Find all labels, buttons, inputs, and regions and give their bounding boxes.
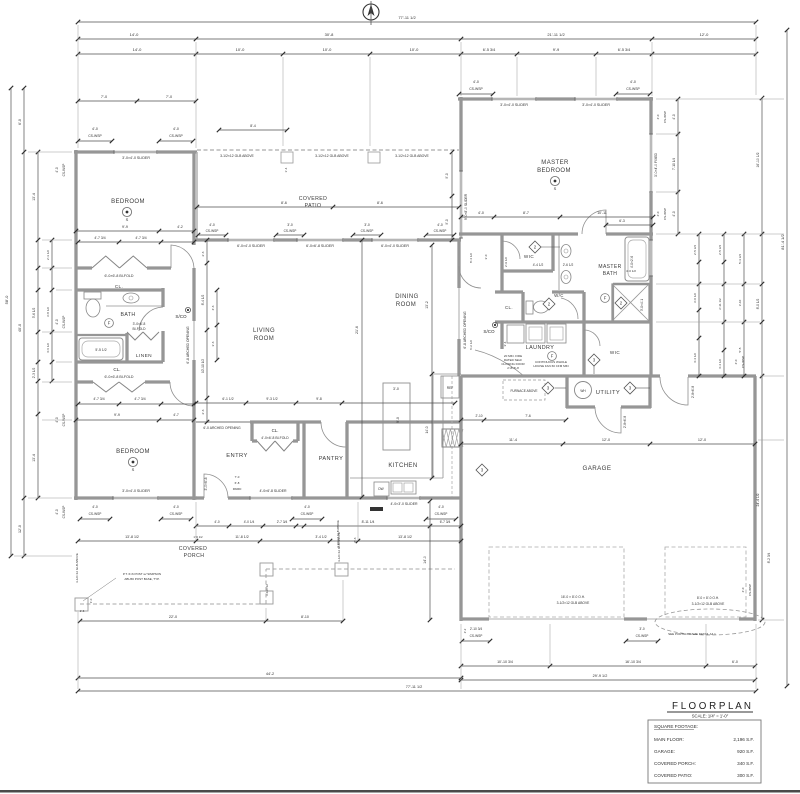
svg-text:12'-0: 12'-0 <box>700 32 710 37</box>
svg-text:8'-7: 8'-7 <box>523 211 529 215</box>
svg-text:CS-WSP: CS-WSP <box>62 316 66 329</box>
svg-text:6'-3: 6'-3 <box>619 219 625 223</box>
svg-text:4'-0×2'-6: 4'-0×2'-6 <box>630 256 634 269</box>
svg-text:CS-WSP: CS-WSP <box>636 634 649 638</box>
svg-text:8'-0 × 8'-0 O.H.: 8'-0 × 8'-0 O.H. <box>697 596 719 600</box>
svg-text:1'-6 1/2: 1'-6 1/2 <box>193 535 203 539</box>
svg-text:CS-WSP: CS-WSP <box>301 512 314 516</box>
svg-text:6'-8: 6'-8 <box>235 481 240 485</box>
svg-text:4'-4 1/2: 4'-4 1/2 <box>718 359 722 369</box>
svg-text:CS-WSP: CS-WSP <box>434 229 447 233</box>
svg-text:9'-3 1/2: 9'-3 1/2 <box>266 397 277 401</box>
svg-text:P.T. 6×6 POST w/ SIMPSON: P.T. 6×6 POST w/ SIMPSON <box>123 572 161 576</box>
svg-text:81'-4 1/2: 81'-4 1/2 <box>780 234 785 250</box>
svg-text:4'-7 3/4: 4'-7 3/4 <box>134 397 145 401</box>
svg-text:SEE PORTAL FRAME DETAIL A4.1: SEE PORTAL FRAME DETAIL A4.1 <box>668 632 716 636</box>
svg-text:CS-WSP: CS-WSP <box>435 512 448 516</box>
svg-text:PANTRY: PANTRY <box>319 456 344 462</box>
svg-text:COVERED PORCH:: COVERED PORCH: <box>654 761 696 766</box>
svg-text:3-1/2×12 GLB ABOVE: 3-1/2×12 GLB ABOVE <box>336 520 340 548</box>
svg-text:6'-0×6'-8 SLIDER: 6'-0×6'-8 SLIDER <box>306 244 334 248</box>
svg-text:22'-0: 22'-0 <box>169 615 177 619</box>
svg-text:12'-0: 12'-0 <box>18 525 22 533</box>
svg-text:BEDROOM: BEDROOM <box>116 449 150 455</box>
svg-text:COVERED PATIO:: COVERED PATIO: <box>654 773 692 778</box>
svg-text:4'-0 1/2: 4'-0 1/2 <box>626 269 636 273</box>
svg-text:6'-0: 6'-0 <box>732 660 738 664</box>
svg-text:CS-WSP: CS-WSP <box>169 134 183 138</box>
svg-text:S/CO: S/CO <box>483 329 495 334</box>
svg-text:1'-0: 1'-0 <box>89 598 93 603</box>
svg-text:2'-8×6'-8: 2'-8×6'-8 <box>507 366 519 370</box>
svg-text:7'-0: 7'-0 <box>101 95 107 99</box>
svg-text:6'-0×6'-8 BI-FOLD: 6'-0×6'-8 BI-FOLD <box>104 375 133 379</box>
svg-text:CS-WSP: CS-WSP <box>89 512 102 516</box>
svg-text:14'-0: 14'-0 <box>425 426 429 433</box>
svg-text:9'-9: 9'-9 <box>122 225 128 229</box>
svg-text:F: F <box>108 321 111 326</box>
svg-text:KITCHEN: KITCHEN <box>388 463 417 469</box>
svg-text:1'-4: 1'-4 <box>284 167 288 172</box>
svg-text:S/CO: S/CO <box>175 314 187 319</box>
svg-text:4'-0: 4'-0 <box>304 505 310 509</box>
svg-text:4'-7: 4'-7 <box>173 413 179 417</box>
svg-text:9'-0: 9'-0 <box>396 417 400 423</box>
svg-text:14'-0: 14'-0 <box>423 556 427 564</box>
svg-text:4'-2: 4'-2 <box>177 225 183 229</box>
svg-text:FURNACE ABOVE: FURNACE ABOVE <box>510 389 537 393</box>
svg-text:2'-7 3/4: 2'-7 3/4 <box>277 520 288 524</box>
svg-text:6'-0×4'-0 SLIDER: 6'-0×4'-0 SLIDER <box>237 244 265 248</box>
svg-text:3-1/2×12: 3-1/2×12 <box>265 584 269 596</box>
svg-text:300 S.F.: 300 S.F. <box>737 773 754 778</box>
svg-text:6'-8 ARCHED OPENING: 6'-8 ARCHED OPENING <box>463 311 467 349</box>
svg-text:4'-0: 4'-0 <box>173 127 179 131</box>
svg-text:WIC: WIC <box>524 254 534 259</box>
svg-text:2,196 S.F.: 2,196 S.F. <box>733 737 754 742</box>
svg-text:S: S <box>132 467 135 472</box>
svg-text:4'-0: 4'-0 <box>672 211 676 216</box>
svg-text:2'-5 3/4: 2'-5 3/4 <box>693 245 697 255</box>
svg-text:ABU66 POST BASE, TYP.: ABU66 POST BASE, TYP. <box>124 577 159 581</box>
svg-text:4'-4 1/2: 4'-4 1/2 <box>693 353 697 363</box>
svg-text:4'-0: 4'-0 <box>209 223 215 227</box>
svg-text:6'-0: 6'-0 <box>18 119 22 125</box>
svg-text:4'-0×3'-0 SLIDER: 4'-0×3'-0 SLIDER <box>390 502 418 506</box>
svg-text:30'-8: 30'-8 <box>325 32 335 37</box>
svg-text:16'-10 3/4: 16'-10 3/4 <box>625 660 641 664</box>
svg-text:3'-0×6'-8: 3'-0×6'-8 <box>133 322 146 326</box>
svg-text:6'-5 3/4: 6'-5 3/4 <box>618 48 631 52</box>
svg-text:GARAGE: GARAGE <box>583 465 612 472</box>
svg-text:2'-5 3/4: 2'-5 3/4 <box>718 245 722 255</box>
svg-text:BI-FOLD: BI-FOLD <box>132 327 146 331</box>
svg-text:21'-11 1/2: 21'-11 1/2 <box>547 32 565 37</box>
svg-text:GARAGE:: GARAGE: <box>654 749 675 754</box>
svg-text:6'-0×4'-0 SLIDER: 6'-0×4'-0 SLIDER <box>381 244 409 248</box>
svg-text:4'-4 1/2: 4'-4 1/2 <box>533 263 544 267</box>
svg-text:5'-5: 5'-5 <box>738 347 742 352</box>
svg-text:3'-6 1/2: 3'-6 1/2 <box>32 308 36 319</box>
svg-text:9'-9: 9'-9 <box>553 47 560 52</box>
svg-text:77'-11 1/2: 77'-11 1/2 <box>406 685 423 689</box>
svg-text:2'-11 1/2: 2'-11 1/2 <box>718 298 722 310</box>
svg-text:ENTRY: ENTRY <box>226 453 248 459</box>
svg-text:4'-7 3/4: 4'-7 3/4 <box>93 397 104 401</box>
svg-text:2'-3 1/2: 2'-3 1/2 <box>32 368 36 379</box>
svg-text:4'-0: 4'-0 <box>438 505 444 509</box>
svg-text:4'-0: 4'-0 <box>55 319 59 324</box>
svg-text:PAIRD: PAIRD <box>233 487 242 491</box>
svg-text:3-1/2×12 GLB ABOVE: 3-1/2×12 GLB ABOVE <box>75 553 79 583</box>
svg-text:9'-8: 9'-8 <box>316 397 322 401</box>
svg-text:CS-WSP: CS-WSP <box>663 111 667 123</box>
svg-text:4'-0: 4'-0 <box>214 520 219 524</box>
svg-text:2'-8×6'-8: 2'-8×6'-8 <box>691 386 695 399</box>
svg-text:3'-0: 3'-0 <box>287 223 293 227</box>
svg-text:4'-0: 4'-0 <box>92 127 98 131</box>
svg-text:7'-6: 7'-6 <box>525 414 531 418</box>
svg-text:13'-4: 13'-4 <box>32 193 36 201</box>
svg-text:44'-2: 44'-2 <box>266 672 274 676</box>
svg-text:3'-4: 3'-4 <box>503 341 507 346</box>
svg-text:4'-0: 4'-0 <box>437 223 443 227</box>
svg-text:4'-6 1/2: 4'-6 1/2 <box>46 343 50 353</box>
svg-text:3'-0: 3'-0 <box>639 627 644 631</box>
svg-text:2'-10 3/4: 2'-10 3/4 <box>470 627 483 631</box>
svg-text:10'-10 1/2: 10'-10 1/2 <box>201 359 205 373</box>
svg-text:CL.: CL. <box>505 305 513 310</box>
svg-text:4'-0: 4'-0 <box>734 359 738 364</box>
svg-text:4'-0×6'-8 SLIDER: 4'-0×6'-8 SLIDER <box>259 489 287 493</box>
svg-text:3'-6: 3'-6 <box>211 341 215 346</box>
svg-text:BATH: BATH <box>120 312 135 318</box>
svg-text:3-1/2×12 GLB ABOVE: 3-1/2×12 GLB ABOVE <box>557 601 591 605</box>
svg-text:13'-8 1/2: 13'-8 1/2 <box>398 535 412 539</box>
svg-text:MASTER: MASTER <box>541 160 569 166</box>
svg-text:6'-2 1/2: 6'-2 1/2 <box>469 340 473 350</box>
svg-text:W/C: W/C <box>554 293 564 298</box>
svg-text:PORCH: PORCH <box>184 553 205 559</box>
svg-text:CS-WSP: CS-WSP <box>469 87 483 91</box>
svg-text:8'-10: 8'-10 <box>301 615 309 619</box>
svg-text:CS-WSP: CS-WSP <box>470 634 483 638</box>
svg-text:6'-1 1/2: 6'-1 1/2 <box>222 397 233 401</box>
svg-text:7'-10 1/4: 7'-10 1/4 <box>672 158 676 171</box>
svg-text:3'-0×6'-8: 3'-0×6'-8 <box>204 477 208 490</box>
svg-text:1'-6: 1'-6 <box>80 609 85 613</box>
svg-text:F L O O R P L A N: F L O O R P L A N <box>672 700 751 712</box>
svg-text:3-1/2×12 GLB ABOVE: 3-1/2×12 GLB ABOVE <box>220 154 254 158</box>
svg-text:CL.: CL. <box>113 367 120 372</box>
svg-text:CS-WSP: CS-WSP <box>206 229 219 233</box>
svg-text:3'-0×4'-0 SLIDER: 3'-0×4'-0 SLIDER <box>500 103 528 107</box>
svg-text:3'-8 1/2: 3'-8 1/2 <box>46 307 50 317</box>
svg-text:4'-0×6'-8 BI-FOLD: 4'-0×6'-8 BI-FOLD <box>261 436 289 440</box>
svg-text:6'-0 ARCHED OPENING: 6'-0 ARCHED OPENING <box>203 426 241 430</box>
svg-text:10'-11: 10'-11 <box>597 211 607 215</box>
svg-text:8'-4: 8'-4 <box>250 124 256 128</box>
svg-text:LIVING: LIVING <box>253 328 275 334</box>
svg-text:5'-5 1/2: 5'-5 1/2 <box>95 348 106 352</box>
svg-text:13'-8 1/2: 13'-8 1/2 <box>125 535 139 539</box>
svg-text:4'-0: 4'-0 <box>173 505 179 509</box>
svg-text:3'-0 1/2: 3'-0 1/2 <box>693 293 697 303</box>
svg-text:2'-2: 2'-2 <box>463 628 467 633</box>
svg-text:8'-6: 8'-6 <box>353 537 357 542</box>
svg-text:16'-10 1/2: 16'-10 1/2 <box>756 152 760 167</box>
svg-text:4'-0: 4'-0 <box>656 211 660 216</box>
svg-text:WH: WH <box>580 389 586 393</box>
svg-text:8'-4 1/2: 8'-4 1/2 <box>201 295 205 306</box>
svg-text:3'-0×4'-0 SLIDER: 3'-0×4'-0 SLIDER <box>122 156 150 160</box>
svg-text:8'-11 1/4: 8'-11 1/4 <box>362 520 375 524</box>
svg-text:16'-0 × 8'-0 O.H.: 16'-0 × 8'-0 O.H. <box>561 595 585 599</box>
svg-text:S: S <box>126 217 129 222</box>
svg-text:7'-0: 7'-0 <box>166 95 172 99</box>
svg-text:3'-0×4'-0 SLIDER: 3'-0×4'-0 SLIDER <box>582 103 610 107</box>
svg-text:10'-0: 10'-0 <box>323 47 333 52</box>
svg-text:6'-8 ARCHED OPENING: 6'-8 ARCHED OPENING <box>186 326 190 364</box>
svg-text:2'-6: 2'-6 <box>201 251 205 256</box>
svg-text:ROOM: ROOM <box>254 336 274 342</box>
svg-text:40'-0: 40'-0 <box>18 324 22 332</box>
svg-text:2'-10: 2'-10 <box>476 414 483 418</box>
svg-text:3-1/2×12 GLB ABOVE: 3-1/2×12 GLB ABOVE <box>692 602 726 606</box>
svg-text:WIC: WIC <box>610 350 620 355</box>
svg-text:BEDROOM: BEDROOM <box>537 168 571 174</box>
svg-text:11'-4: 11'-4 <box>509 438 517 442</box>
svg-text:3'-0×4'-0 FIXED: 3'-0×4'-0 FIXED <box>654 152 658 177</box>
svg-text:2'-8×6'-8: 2'-8×6'-8 <box>623 416 627 429</box>
svg-text:21'-6: 21'-6 <box>355 326 359 334</box>
svg-text:UTILITY: UTILITY <box>596 390 620 396</box>
svg-text:CS-WSP: CS-WSP <box>361 229 374 233</box>
svg-text:24'-4 1/2: 24'-4 1/2 <box>756 493 760 506</box>
svg-text:3-1/2×12 GLB ABOVE: 3-1/2×12 GLB ABOVE <box>315 154 349 158</box>
svg-text:PATIO: PATIO <box>305 203 322 209</box>
svg-text:9'-0: 9'-0 <box>445 173 449 178</box>
svg-text:77'-11 1/2: 77'-11 1/2 <box>398 15 416 20</box>
svg-text:11'-8 1/2: 11'-8 1/2 <box>235 535 249 539</box>
svg-text:4'-0: 4'-0 <box>55 509 59 514</box>
svg-text:CS-WSP: CS-WSP <box>626 87 640 91</box>
svg-text:2'-6 1/2: 2'-6 1/2 <box>563 263 574 267</box>
svg-text:3-1/2×12 GLB ABOVE: 3-1/2×12 GLB ABOVE <box>395 154 429 158</box>
svg-text:2'-3 1/2: 2'-3 1/2 <box>46 250 50 260</box>
svg-text:9'-9: 9'-9 <box>114 413 120 417</box>
svg-text:13'-4: 13'-4 <box>32 454 36 462</box>
svg-text:8'-4 1/2: 8'-4 1/2 <box>469 253 473 263</box>
svg-text:CL.: CL. <box>115 284 123 289</box>
svg-text:6'-7 3/4: 6'-7 3/4 <box>440 520 451 524</box>
svg-text:DINING: DINING <box>395 294 418 300</box>
svg-text:3'-4 1/2: 3'-4 1/2 <box>315 535 326 539</box>
svg-text:3'-10: 3'-10 <box>738 299 742 306</box>
svg-text:10'-0: 10'-0 <box>236 47 246 52</box>
svg-text:CS-WSP: CS-WSP <box>741 356 745 368</box>
svg-text:4'-0: 4'-0 <box>478 211 484 215</box>
svg-text:CS-WSP: CS-WSP <box>663 208 667 220</box>
svg-text:4'-0: 4'-0 <box>473 80 479 84</box>
svg-text:4'-0: 4'-0 <box>630 80 636 84</box>
svg-text:4'-0: 4'-0 <box>656 114 660 119</box>
svg-text:3'-0: 3'-0 <box>364 223 370 227</box>
svg-text:8'-2 3/4: 8'-2 3/4 <box>767 553 771 564</box>
svg-text:4'-0: 4'-0 <box>672 114 676 119</box>
svg-text:58'-0: 58'-0 <box>4 295 9 305</box>
svg-text:7'-0: 7'-0 <box>235 475 240 479</box>
svg-text:8'-6: 8'-6 <box>281 201 287 205</box>
svg-text:920 S.F.: 920 S.F. <box>737 749 754 754</box>
svg-text:6'-5 3/4: 6'-5 3/4 <box>483 48 496 52</box>
svg-text:CS-WSP: CS-WSP <box>284 229 297 233</box>
svg-text:REF: REF <box>447 386 454 390</box>
svg-text:340 S.F.: 340 S.F. <box>737 761 754 766</box>
svg-text:CS-WSP: CS-WSP <box>170 512 183 516</box>
svg-text:4'-7 3/4: 4'-7 3/4 <box>94 236 105 240</box>
svg-text:4'-7 3/4: 4'-7 3/4 <box>135 236 146 240</box>
svg-text:9'-0×8'-0 SLIDER: 9'-0×8'-0 SLIDER <box>464 193 468 220</box>
svg-text:4'-6: 4'-6 <box>211 305 215 310</box>
svg-text:LAUNDRY: LAUNDRY <box>526 345 554 351</box>
svg-text:COVERED: COVERED <box>299 196 327 202</box>
svg-text:MASTER: MASTER <box>598 264 621 270</box>
svg-text:4'-0: 4'-0 <box>55 167 59 172</box>
svg-text:F: F <box>551 354 554 359</box>
svg-text:3'-0×4'-1: 3'-0×4'-1 <box>640 299 644 312</box>
svg-text:BEDROOM: BEDROOM <box>111 199 145 205</box>
svg-text:2'-6: 2'-6 <box>201 409 205 414</box>
svg-text:4'-0: 4'-0 <box>741 587 745 592</box>
svg-text:3'-0: 3'-0 <box>393 387 399 391</box>
svg-text:F: F <box>604 296 607 301</box>
svg-text:4'-0: 4'-0 <box>92 505 98 509</box>
svg-text:CS-WSP: CS-WSP <box>748 584 752 596</box>
svg-text:2'-9 1/2: 2'-9 1/2 <box>504 257 508 267</box>
svg-text:S: S <box>554 186 557 191</box>
svg-text:LINEN: LINEN <box>136 353 152 359</box>
svg-text:10'-0: 10'-0 <box>410 47 420 52</box>
svg-text:3'-0: 3'-0 <box>484 254 488 259</box>
svg-text:DW: DW <box>378 487 383 491</box>
svg-text:9'-0: 9'-0 <box>445 219 449 224</box>
svg-text:ROOM: ROOM <box>396 302 416 308</box>
svg-text:29'-9 1/2: 29'-9 1/2 <box>593 674 608 678</box>
svg-text:SCALE: 1/4″ = 1′-0″: SCALE: 1/4″ = 1′-0″ <box>692 714 729 719</box>
svg-text:8'-6: 8'-6 <box>377 201 383 205</box>
svg-text:CS-WSP: CS-WSP <box>88 134 102 138</box>
svg-text:14'-0: 14'-0 <box>133 47 143 52</box>
svg-text:12'-0: 12'-0 <box>698 438 706 442</box>
svg-text:MAIN FLOOR:: MAIN FLOOR: <box>654 737 684 742</box>
svg-text:8'-0 1/2: 8'-0 1/2 <box>756 299 760 310</box>
svg-text:CS-WSP: CS-WSP <box>62 164 66 177</box>
svg-text:BATH: BATH <box>603 271 618 277</box>
svg-text:10'-10 3/4: 10'-10 3/4 <box>497 660 513 664</box>
svg-text:12'-0: 12'-0 <box>602 438 610 442</box>
svg-text:13'-2: 13'-2 <box>425 301 429 309</box>
svg-text:CL.: CL. <box>272 428 279 433</box>
svg-text:3'-0×4'-0 SLIDER: 3'-0×4'-0 SLIDER <box>122 489 150 493</box>
svg-text:SQUARE FOOTAGE:: SQUARE FOOTAGE: <box>654 724 698 729</box>
svg-text:COVERED: COVERED <box>179 546 207 552</box>
svg-text:14'-0: 14'-0 <box>130 32 140 37</box>
svg-text:5'-3 3/4: 5'-3 3/4 <box>738 254 742 264</box>
svg-text:6'-0×6'-8 BI-FOLD: 6'-0×6'-8 BI-FOLD <box>104 274 133 278</box>
svg-text:4'-0 1/4: 4'-0 1/4 <box>244 520 255 524</box>
svg-text:HOUSE FAN 60 CFM MIN: HOUSE FAN 60 CFM MIN <box>533 364 568 368</box>
svg-text:CS-WSP: CS-WSP <box>62 506 66 519</box>
